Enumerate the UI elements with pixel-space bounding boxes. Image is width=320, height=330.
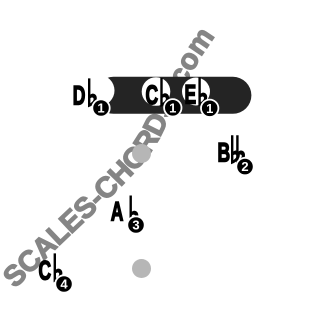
svg-text:C: C xyxy=(146,80,159,110)
svg-text:4: 4 xyxy=(60,277,68,292)
white disc Cb xyxy=(142,77,171,106)
svg-text:1: 1 xyxy=(97,101,104,116)
label Cb xyxy=(146,78,170,110)
svg-text:A: A xyxy=(111,197,124,227)
white disc Eb xyxy=(182,78,210,106)
svg-text:B: B xyxy=(218,138,231,168)
finger bubble 1 (Eb) xyxy=(201,100,218,117)
finger bubble 4 (Cb) xyxy=(55,275,72,292)
finger bubble 1 (Cb) xyxy=(164,99,181,116)
label Bbb xyxy=(218,135,246,167)
label Db xyxy=(73,78,97,110)
svg-text:C: C xyxy=(39,256,52,286)
label Ab xyxy=(111,196,139,227)
label Cb fret 4 xyxy=(39,253,63,285)
svg-text:3: 3 xyxy=(132,218,139,233)
finger bubble 2 (Bbb) xyxy=(236,158,253,175)
label Eb xyxy=(185,77,208,109)
svg-text:1: 1 xyxy=(169,100,176,115)
svg-text:1: 1 xyxy=(206,101,213,116)
finger bubble 3 (Ab) xyxy=(127,216,144,233)
svg-text:D: D xyxy=(73,81,86,111)
svg-text:2: 2 xyxy=(241,159,248,174)
barre bar fret 1 xyxy=(95,77,251,114)
white disc Db xyxy=(84,75,115,106)
gray dot fret 2 xyxy=(132,144,151,163)
gray dot fret 4 xyxy=(132,259,151,278)
svg-text:E: E xyxy=(185,80,197,110)
guitar chord chart xyxy=(0,0,255,330)
finger bubble 1 (Db) xyxy=(92,99,109,116)
watermark SCALES-CHORDS.com xyxy=(15,28,222,289)
